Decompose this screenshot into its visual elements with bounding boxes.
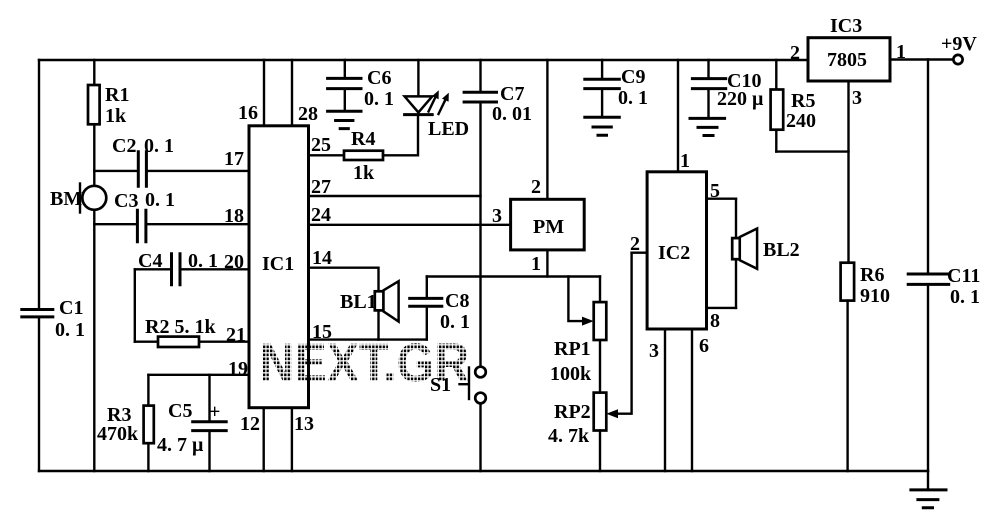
capacitor C2 bbox=[94, 135, 249, 186]
svg-text:2: 2 bbox=[630, 233, 640, 255]
wire: pin 24 to PM pin 3 bbox=[309, 224, 511, 226]
svg-text:C7: C7 bbox=[500, 83, 524, 105]
wire: top supply rail bbox=[39, 59, 808, 61]
svg-text:3: 3 bbox=[649, 340, 659, 362]
svg-text:5: 5 bbox=[710, 180, 720, 202]
svg-text:17: 17 bbox=[224, 148, 244, 170]
wire: C4/R2 left loop bbox=[134, 269, 136, 341]
svg-text:LED: LED bbox=[428, 118, 469, 140]
wire: pin 15 bbox=[309, 338, 427, 340]
wire: +9V branch down right side bbox=[927, 60, 929, 472]
resistor R5 bbox=[771, 60, 816, 152]
potentiometer RP1 bbox=[550, 277, 606, 393]
svg-text:R1: R1 bbox=[105, 84, 129, 106]
svg-text:24: 24 bbox=[311, 204, 331, 226]
wire: left border bbox=[38, 60, 40, 471]
svg-text:7805: 7805 bbox=[827, 49, 867, 71]
svg-text:28: 28 bbox=[298, 103, 318, 125]
svg-text:BL2: BL2 bbox=[763, 239, 800, 261]
svg-text:IC1: IC1 bbox=[262, 253, 294, 275]
wire: pin 13 bbox=[291, 408, 293, 471]
capacitor C3 bbox=[94, 189, 249, 242]
svg-text:C5: C5 bbox=[168, 400, 192, 422]
wire: pin 25 bbox=[309, 154, 345, 156]
svg-text:C3: C3 bbox=[114, 190, 138, 212]
svg-text:8: 8 bbox=[710, 310, 720, 332]
ground (bottom right) bbox=[927, 471, 929, 489]
svg-text:1k: 1k bbox=[353, 162, 375, 184]
wire: C8/PM1/RP1 horizontal bbox=[427, 275, 600, 277]
wire: pin 27 bbox=[309, 195, 481, 197]
svg-text:0. 01: 0. 01 bbox=[492, 103, 532, 125]
svg-text:NEXT.GR: NEXT.GR bbox=[260, 332, 470, 394]
wire: IC2 pin 3 bbox=[664, 329, 666, 471]
svg-text:C8: C8 bbox=[445, 290, 469, 312]
microphone BM bbox=[50, 184, 106, 213]
svg-text:18: 18 bbox=[224, 205, 244, 227]
svg-text:4. 7k: 4. 7k bbox=[548, 425, 590, 447]
svg-text:470k: 470k bbox=[97, 423, 139, 445]
svg-text:20: 20 bbox=[224, 251, 244, 273]
svg-text:R5: R5 bbox=[791, 90, 815, 112]
svg-text:IC2: IC2 bbox=[658, 242, 690, 264]
svg-text:R2 5. 1k: R2 5. 1k bbox=[145, 316, 216, 338]
svg-text:13: 13 bbox=[294, 413, 314, 435]
wire: IC3 pin 1 to +9V bbox=[890, 58, 953, 60]
switch S1 bbox=[430, 367, 486, 471]
terminal +9V bbox=[941, 33, 977, 64]
resistor R3 bbox=[97, 375, 154, 471]
op-amp/IC U1: IC1 box bbox=[249, 126, 309, 408]
wire: pin 28 bbox=[291, 60, 293, 126]
svg-text:19: 19 bbox=[228, 358, 248, 380]
svg-text:C6: C6 bbox=[367, 67, 391, 89]
svg-text:1k: 1k bbox=[105, 105, 127, 127]
wire: R5 bottom to IC3 pin 3 line bbox=[776, 150, 848, 152]
capacitor C11 bbox=[908, 265, 980, 308]
svg-text:+: + bbox=[209, 401, 220, 423]
capacitor C9 with ground bbox=[585, 60, 648, 116]
svg-text:C11: C11 bbox=[947, 265, 980, 287]
svg-text:C2: C2 bbox=[112, 135, 136, 157]
wire: IC2 pin 6 bbox=[691, 329, 693, 471]
wire: pin 12 bbox=[263, 408, 265, 471]
potentiometer RP2 bbox=[548, 253, 632, 471]
ground (C9) bbox=[585, 117, 620, 135]
resistor R6 bbox=[841, 263, 890, 471]
ground (C10) bbox=[690, 118, 725, 135]
resistor R4 bbox=[344, 128, 383, 184]
resistor R1 bbox=[88, 84, 129, 127]
svg-text:0. 1: 0. 1 bbox=[618, 87, 648, 109]
svg-text:100k: 100k bbox=[550, 363, 592, 385]
resistor R2 bbox=[135, 316, 249, 347]
svg-text:RP2: RP2 bbox=[554, 401, 591, 423]
wire: IC3 pin 3 down bbox=[847, 81, 849, 263]
wire: PM pin 1 bbox=[546, 250, 548, 277]
svg-text:1: 1 bbox=[680, 150, 690, 172]
svg-text:16: 16 bbox=[238, 102, 258, 124]
svg-text:1: 1 bbox=[531, 253, 541, 275]
capacitor C7 bbox=[464, 60, 532, 365]
wire: IC2 pin 8 bbox=[707, 307, 737, 309]
svg-text:0. 1: 0. 1 bbox=[145, 189, 175, 211]
wire: R4 to LED bbox=[383, 116, 418, 155]
wire: R1/BM vertical line bbox=[93, 60, 95, 471]
svg-text:BL1: BL1 bbox=[340, 291, 377, 313]
svg-text:25: 25 bbox=[311, 134, 331, 156]
svg-text:4. 7 μ: 4. 7 μ bbox=[157, 434, 204, 456]
svg-text:IC3: IC3 bbox=[830, 15, 862, 37]
amplifier module PM bbox=[511, 199, 585, 250]
wire: IC2 pin 5 bbox=[707, 197, 737, 199]
wire: IC2 pin 2 bbox=[632, 251, 648, 253]
wire: pin 14 to BL1 bbox=[309, 268, 379, 292]
svg-text:C4: C4 bbox=[138, 250, 162, 272]
capacitor C8 bbox=[410, 277, 470, 340]
capacitor C6 with ground bbox=[328, 60, 394, 110]
speaker BL1 bbox=[340, 281, 399, 339]
svg-text:220 μ: 220 μ bbox=[717, 88, 764, 110]
svg-text:27: 27 bbox=[311, 176, 331, 198]
svg-text:0. 1: 0. 1 bbox=[364, 88, 394, 110]
svg-text:2: 2 bbox=[531, 176, 541, 198]
svg-text:2: 2 bbox=[790, 42, 800, 64]
svg-text:C1: C1 bbox=[59, 297, 83, 319]
wire: pin 19 wire bbox=[148, 374, 249, 376]
voltage regulator IC3 7805 bbox=[808, 15, 890, 81]
svg-text:R4: R4 bbox=[351, 128, 375, 150]
IC U2: IC2 box bbox=[647, 172, 706, 329]
speaker BL2 bbox=[732, 199, 799, 308]
svg-text:12: 12 bbox=[240, 413, 260, 435]
svg-text:910: 910 bbox=[860, 285, 890, 307]
svg-text:21: 21 bbox=[226, 324, 246, 346]
svg-text:C9: C9 bbox=[621, 66, 645, 88]
capacitor C10 with ground bbox=[692, 60, 764, 117]
wire: IC2 pin 1 bbox=[677, 60, 679, 172]
ground (C6) bbox=[328, 111, 361, 128]
svg-text:0. 1: 0. 1 bbox=[950, 286, 980, 308]
svg-text:0. 1: 0. 1 bbox=[440, 311, 470, 333]
svg-text:PM: PM bbox=[533, 216, 564, 238]
svg-text:6: 6 bbox=[699, 335, 709, 357]
svg-text:3: 3 bbox=[492, 205, 502, 227]
wire: PM pin 2 bbox=[546, 60, 548, 199]
svg-text:0. 1: 0. 1 bbox=[144, 135, 174, 157]
svg-text:14: 14 bbox=[312, 247, 332, 269]
wire: pin 16 bbox=[263, 60, 265, 126]
svg-text:R6: R6 bbox=[860, 264, 884, 286]
svg-text:0. 1: 0. 1 bbox=[55, 319, 85, 341]
svg-text:BM: BM bbox=[50, 188, 82, 210]
svg-text:0. 1: 0. 1 bbox=[188, 250, 218, 272]
capacitor C4 bbox=[135, 250, 249, 285]
svg-text:240: 240 bbox=[786, 110, 816, 132]
wire: bottom ground rail bbox=[39, 470, 928, 472]
svg-text:RP1: RP1 bbox=[554, 338, 591, 360]
svg-text:3: 3 bbox=[852, 87, 862, 109]
svg-text:+9V: +9V bbox=[941, 33, 977, 55]
LED bbox=[405, 60, 470, 140]
capacitor C1 bbox=[22, 297, 85, 341]
capacitor C5 (polarized) bbox=[157, 375, 226, 471]
